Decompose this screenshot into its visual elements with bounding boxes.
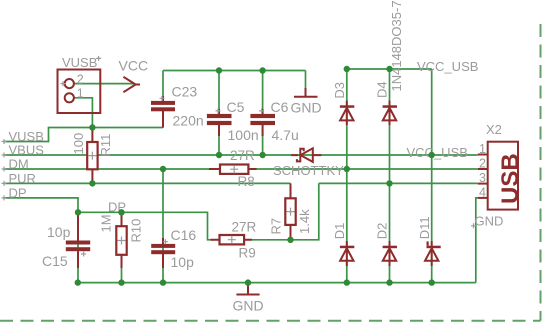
- wire C6 column bottom: [262, 128, 264, 155]
- junction dot rail C16: [160, 279, 166, 285]
- svg-text:VBUS: VBUS: [9, 143, 45, 158]
- schottky diode: [291, 154, 321, 156]
- wire X2 pin4 down: [476, 198, 478, 283]
- wire DP label stub: [4, 198, 78, 212]
- resistor R9: [211, 239, 253, 241]
- junction dot C6 top: [259, 67, 265, 73]
- diode D1: [346, 241, 348, 266]
- resistor R10: [121, 215, 123, 268]
- junction dot rail D2: [386, 279, 392, 285]
- svg-text:C16: C16: [171, 227, 197, 243]
- supply symbol VCC arrow: [123, 77, 140, 92]
- svg-text:C23: C23: [172, 84, 198, 100]
- svg-text:2: 2: [77, 72, 84, 86]
- svg-text:D11: D11: [417, 216, 432, 239]
- capacitor C23: [162, 96, 164, 128]
- svg-text:1: 1: [479, 142, 486, 156]
- capacitor C16: [162, 238, 164, 268]
- junction dot DP R10: [118, 209, 124, 215]
- svg-text:R11: R11: [98, 134, 113, 157]
- connector X2 box: [488, 142, 518, 210]
- svg-text:3: 3: [479, 171, 486, 185]
- wire PUR row left: [4, 182, 291, 184]
- svg-text:GND: GND: [475, 213, 504, 228]
- svg-text:DM: DM: [9, 157, 29, 172]
- svg-text:VCC_USB: VCC_USB: [407, 145, 468, 160]
- svg-text:R9: R9: [239, 246, 256, 261]
- svg-text:100n: 100n: [228, 127, 259, 143]
- wire R10 column: [121, 212, 123, 282]
- svg-text:10p: 10p: [47, 224, 71, 240]
- X2 pin 4 stub: [478, 197, 488, 199]
- wire VCC_USB rail: [347, 68, 432, 70]
- X2 pin 2 stub: [478, 168, 488, 170]
- wire DM row: [4, 168, 478, 170]
- wire VBUS row: [4, 154, 478, 156]
- junction dot C5 top: [216, 67, 222, 73]
- wire PUR row right: [319, 182, 478, 184]
- svg-text:220n: 220n: [173, 113, 204, 129]
- svg-text:X2: X2: [486, 122, 502, 137]
- junction dot VCC_USB pin1: [429, 152, 435, 158]
- svg-text:1M: 1M: [99, 214, 114, 232]
- svg-text:D2: D2: [375, 223, 390, 240]
- connector name cross: [96, 56, 101, 61]
- svg-text:27R: 27R: [230, 148, 255, 163]
- resistor R11: [91, 129, 93, 182]
- resistor R8: [209, 168, 257, 170]
- wire pin2 to VCC arrow: [74, 83, 134, 85]
- junction dot D4 top: [386, 66, 392, 72]
- pin 2 circle: [65, 79, 74, 88]
- svg-text:SCHOTTKY: SCHOTTKY: [273, 163, 344, 178]
- junction dot VUSB: [89, 124, 95, 130]
- svg-text:USB: USB: [497, 153, 524, 204]
- junction dot DP C15: [75, 209, 81, 215]
- svg-text:100: 100: [71, 133, 86, 155]
- wire D3 D1 column: [346, 69, 348, 283]
- junction dot rail C15: [75, 279, 81, 285]
- svg-text:10p: 10p: [171, 254, 195, 270]
- svg-text:4: 4: [479, 185, 486, 199]
- supply symbol GND top: [305, 88, 307, 97]
- wire VUSB label stub: [4, 128, 163, 142]
- pin 1 circle: [65, 93, 74, 102]
- junction dot D3 DM: [344, 166, 350, 172]
- svg-text:C5: C5: [227, 99, 245, 115]
- schottky triangle: [301, 148, 313, 162]
- wire pin1 down to junction: [74, 98, 92, 128]
- junction dot D3 top: [344, 66, 350, 72]
- svg-text:1: 1: [77, 87, 84, 101]
- wire C5 column top: [218, 71, 220, 113]
- wire D4 D2 column: [389, 69, 391, 283]
- diode D3: [346, 101, 348, 125]
- resistor R7: [290, 183, 292, 238]
- svg-text:R10: R10: [129, 219, 144, 243]
- svg-text:GND: GND: [291, 100, 322, 116]
- supply symbol GND bottom: [247, 283, 249, 295]
- diode D2: [389, 241, 391, 266]
- X2 pin 3 stub: [478, 183, 488, 185]
- junction dot R11 bottom: [89, 180, 95, 186]
- wire DP row2: [78, 212, 213, 240]
- frame border dashed bottom: [0, 320, 541, 322]
- junction dot C5 bottom: [216, 152, 222, 158]
- svg-text:27R: 27R: [232, 220, 257, 235]
- junction dot R7 R9: [287, 237, 293, 243]
- frame border dashed right: [540, 24, 542, 321]
- wire C5 column bottom: [218, 128, 220, 155]
- svg-text:2: 2: [479, 157, 486, 171]
- diode D4: [389, 101, 391, 125]
- svg-text:VCC_USB: VCC_USB: [417, 59, 478, 74]
- junction dot rail R10: [118, 279, 124, 285]
- svg-text:4.7u: 4.7u: [272, 127, 299, 143]
- wire VCC_USB drop D11 column: [431, 69, 433, 283]
- svg-text:R7: R7: [269, 218, 284, 235]
- svg-text:GND: GND: [233, 298, 264, 314]
- svg-text:1.4k: 1.4k: [297, 209, 312, 234]
- wire C15 column: [77, 212, 79, 282]
- wire C6 column top: [262, 71, 264, 113]
- svg-text:1N4148DO35-7: 1N4148DO35-7: [389, 0, 404, 91]
- svg-text:VCC: VCC: [119, 58, 149, 74]
- svg-text:R8: R8: [238, 174, 255, 189]
- svg-text:C15: C15: [42, 253, 68, 269]
- X2 pin 1 stub: [478, 154, 488, 156]
- svg-text:PUR: PUR: [9, 171, 36, 186]
- svg-text:VUSB: VUSB: [62, 55, 97, 70]
- wire VCC rail: [163, 70, 306, 72]
- junction dot rail GND: [245, 279, 251, 285]
- schottky bar with hooks: [297, 149, 304, 162]
- capacitor C15: [77, 215, 79, 268]
- zener diode D11: [431, 241, 433, 266]
- svg-text:D4: D4: [375, 81, 390, 98]
- capacitor C5: [218, 109, 220, 136]
- wire GND top column: [305, 71, 307, 90]
- wire R9 to R7 node: [251, 183, 319, 239]
- connector J VUSB box: [58, 70, 101, 114]
- junction dot C16 DM: [160, 166, 166, 172]
- wire bottom GND rail: [78, 282, 476, 284]
- pin 2 origin cross: [61, 81, 66, 86]
- capacitor C6: [262, 109, 264, 136]
- junction dot C6 bottom: [259, 152, 265, 158]
- svg-text:D1: D1: [332, 223, 347, 240]
- junction dot rail D1: [344, 279, 350, 285]
- wire C16 DM column: [162, 169, 164, 283]
- junction dot D2 PUR: [386, 180, 392, 186]
- junction dot rail D11: [429, 279, 435, 285]
- svg-text:DP: DP: [9, 185, 27, 200]
- svg-text:C6: C6: [271, 99, 289, 115]
- wire C23 column: [162, 71, 164, 99]
- svg-text:D3: D3: [332, 82, 347, 99]
